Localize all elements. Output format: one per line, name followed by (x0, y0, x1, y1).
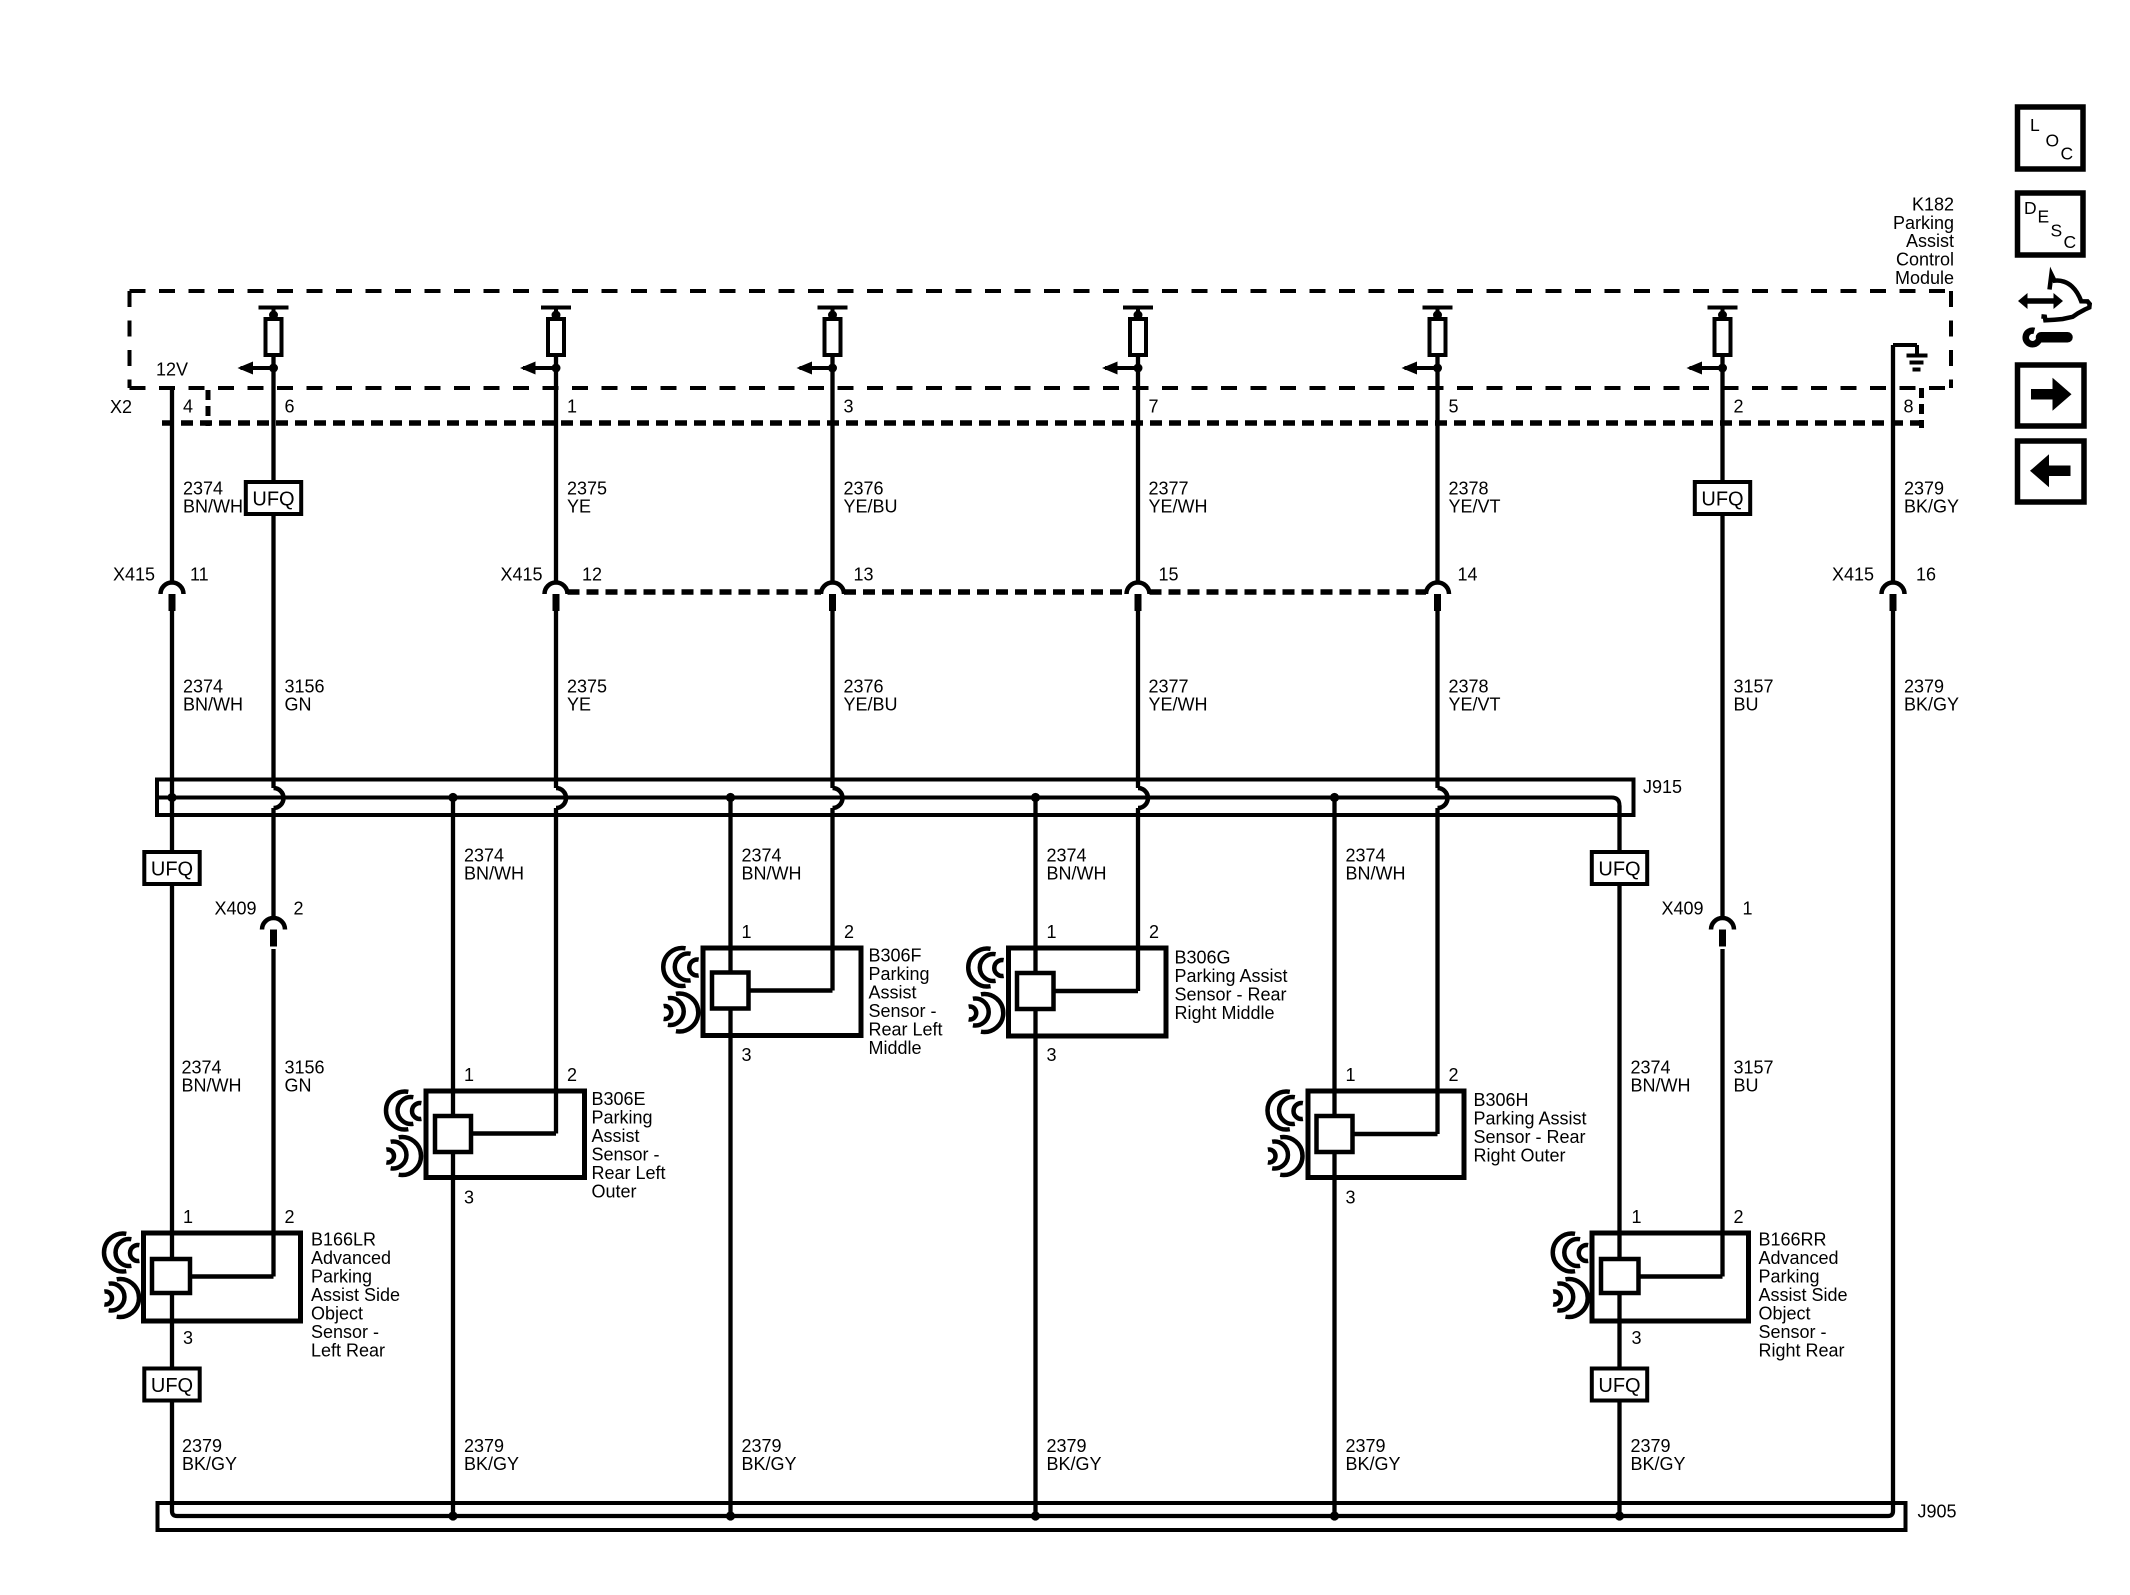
svg-text:S: S (2051, 221, 2063, 241)
svg-text:Right Outer: Right Outer (1474, 1146, 1566, 1166)
svg-text:YE: YE (567, 497, 591, 517)
svg-text:UFQ: UFQ (151, 858, 193, 880)
svg-text:2: 2 (567, 1065, 577, 1085)
svg-text:1: 1 (1743, 899, 1753, 919)
svg-text:14: 14 (1458, 565, 1478, 585)
svg-text:4: 4 (183, 397, 193, 417)
svg-text:B166RR: B166RR (1759, 1230, 1827, 1250)
svg-text:Sensor - Rear: Sensor - Rear (1474, 1127, 1586, 1147)
svg-text:UFQ: UFQ (1701, 488, 1743, 510)
svg-text:3: 3 (464, 1188, 474, 1208)
svg-text:BN/WH: BN/WH (464, 864, 524, 884)
svg-text:3157: 3157 (1734, 1058, 1774, 1078)
svg-text:1: 1 (1047, 922, 1057, 942)
svg-text:2: 2 (1449, 1065, 1459, 1085)
svg-text:B306H: B306H (1474, 1090, 1529, 1110)
svg-text:2379: 2379 (1047, 1436, 1087, 1456)
svg-text:3: 3 (844, 397, 854, 417)
svg-text:BK/GY: BK/GY (464, 1454, 519, 1474)
svg-text:BU: BU (1734, 1076, 1759, 1096)
svg-text:UFQ: UFQ (1598, 1375, 1640, 1397)
svg-text:2: 2 (1734, 397, 1744, 417)
svg-text:2: 2 (844, 922, 854, 942)
svg-text:3: 3 (1346, 1188, 1356, 1208)
svg-text:2376: 2376 (844, 677, 884, 697)
svg-text:8: 8 (1904, 397, 1914, 417)
svg-text:11: 11 (190, 565, 209, 585)
svg-text:BK/GY: BK/GY (1346, 1454, 1401, 1474)
svg-text:Advanced: Advanced (311, 1248, 391, 1268)
svg-text:2: 2 (1149, 922, 1159, 942)
svg-text:YE: YE (567, 695, 591, 715)
svg-text:3156: 3156 (285, 677, 325, 697)
svg-text:Sensor -: Sensor - (592, 1145, 660, 1165)
svg-text:BN/WH: BN/WH (1631, 1076, 1691, 1096)
svg-text:2374: 2374 (183, 479, 223, 499)
svg-text:Advanced: Advanced (1759, 1248, 1839, 1268)
svg-text:1: 1 (1346, 1065, 1356, 1085)
svg-text:Parking Assist: Parking Assist (1175, 966, 1288, 986)
svg-text:Right Rear: Right Rear (1759, 1341, 1845, 1361)
svg-text:12V: 12V (156, 359, 188, 379)
svg-text:2374: 2374 (1346, 846, 1386, 866)
svg-text:Assist: Assist (1906, 231, 1954, 251)
svg-text:B306G: B306G (1175, 948, 1231, 968)
svg-text:Assist Side: Assist Side (1759, 1285, 1848, 1305)
svg-text:2374: 2374 (464, 846, 504, 866)
svg-text:Parking: Parking (1759, 1267, 1820, 1287)
svg-text:BN/WH: BN/WH (1346, 864, 1406, 884)
svg-text:12: 12 (582, 565, 602, 585)
svg-text:J915: J915 (1643, 777, 1682, 797)
svg-text:Parking: Parking (311, 1267, 372, 1287)
svg-text:Outer: Outer (592, 1182, 637, 1202)
svg-text:Parking: Parking (592, 1108, 653, 1128)
svg-text:D: D (2024, 198, 2037, 218)
svg-text:2: 2 (1734, 1207, 1744, 1227)
svg-text:BK/GY: BK/GY (182, 1454, 237, 1474)
svg-text:3156: 3156 (285, 1058, 325, 1078)
svg-text:2377: 2377 (1149, 479, 1189, 499)
svg-text:BN/WH: BN/WH (183, 497, 243, 517)
svg-text:B306E: B306E (592, 1089, 646, 1109)
svg-text:YE/BU: YE/BU (844, 497, 898, 517)
svg-text:2: 2 (285, 1207, 295, 1227)
svg-text:X2: X2 (110, 397, 132, 417)
svg-text:15: 15 (1159, 565, 1179, 585)
svg-text:2: 2 (294, 899, 304, 919)
svg-text:X409: X409 (215, 899, 257, 919)
svg-text:2377: 2377 (1149, 677, 1189, 697)
svg-text:3157: 3157 (1734, 677, 1774, 697)
svg-text:Sensor -: Sensor - (869, 1001, 937, 1021)
svg-text:GN: GN (285, 695, 312, 715)
svg-text:2379: 2379 (464, 1436, 504, 1456)
svg-text:Sensor -: Sensor - (311, 1322, 379, 1342)
svg-text:X409: X409 (1662, 899, 1704, 919)
svg-text:Object: Object (311, 1304, 363, 1324)
svg-text:X415: X415 (1832, 565, 1874, 585)
svg-text:X415: X415 (113, 565, 155, 585)
svg-text:Module: Module (1895, 268, 1954, 288)
svg-text:BK/GY: BK/GY (1904, 695, 1959, 715)
svg-text:Object: Object (1759, 1304, 1811, 1324)
svg-text:BK/GY: BK/GY (742, 1454, 797, 1474)
svg-text:BK/GY: BK/GY (1047, 1454, 1102, 1474)
svg-text:BN/WH: BN/WH (742, 864, 802, 884)
svg-text:2378: 2378 (1449, 677, 1489, 697)
svg-text:Assist: Assist (592, 1126, 640, 1146)
svg-text:3: 3 (742, 1045, 752, 1065)
svg-text:1: 1 (464, 1065, 474, 1085)
svg-text:2379: 2379 (742, 1436, 782, 1456)
svg-text:2374: 2374 (1631, 1058, 1671, 1078)
svg-text:Right Middle: Right Middle (1175, 1003, 1275, 1023)
svg-text:BK/GY: BK/GY (1631, 1454, 1686, 1474)
svg-text:BN/WH: BN/WH (183, 695, 243, 715)
svg-text:B306F: B306F (869, 946, 922, 966)
svg-text:BU: BU (1734, 695, 1759, 715)
svg-text:BN/WH: BN/WH (1047, 864, 1107, 884)
svg-text:UFQ: UFQ (151, 1375, 193, 1397)
svg-text:2379: 2379 (182, 1436, 222, 1456)
svg-text:X415: X415 (501, 565, 543, 585)
svg-text:B166LR: B166LR (311, 1230, 376, 1250)
svg-text:UFQ: UFQ (1598, 858, 1640, 880)
svg-text:2379: 2379 (1346, 1436, 1386, 1456)
svg-text:Sensor - Rear: Sensor - Rear (1175, 985, 1287, 1005)
svg-text:3: 3 (1632, 1328, 1642, 1348)
svg-text:2375: 2375 (567, 479, 607, 499)
svg-text:Sensor -: Sensor - (1759, 1322, 1827, 1342)
svg-text:BN/WH: BN/WH (182, 1076, 242, 1096)
svg-text:Rear Left: Rear Left (592, 1163, 666, 1183)
svg-text:3: 3 (1047, 1045, 1057, 1065)
svg-text:Assist Side: Assist Side (311, 1285, 400, 1305)
svg-text:GN: GN (285, 1076, 312, 1096)
svg-text:YE/WH: YE/WH (1149, 497, 1208, 517)
svg-text:Assist: Assist (869, 983, 917, 1003)
svg-text:Parking Assist: Parking Assist (1474, 1109, 1587, 1129)
svg-text:2379: 2379 (1904, 677, 1944, 697)
svg-text:Rear Left: Rear Left (869, 1020, 943, 1040)
svg-text:K182: K182 (1912, 194, 1954, 214)
svg-text:Parking: Parking (1893, 213, 1954, 233)
svg-text:L: L (2030, 115, 2040, 135)
svg-text:BK/GY: BK/GY (1904, 497, 1959, 517)
svg-text:5: 5 (1449, 397, 1459, 417)
svg-text:1: 1 (1632, 1207, 1642, 1227)
svg-text:2374: 2374 (183, 677, 223, 697)
svg-text:Control: Control (1896, 250, 1954, 270)
svg-text:YE/BU: YE/BU (844, 695, 898, 715)
svg-text:C: C (2061, 144, 2074, 164)
svg-text:3: 3 (183, 1328, 193, 1348)
svg-text:1: 1 (567, 397, 577, 417)
svg-text:2374: 2374 (1047, 846, 1087, 866)
svg-text:Left Rear: Left Rear (311, 1341, 385, 1361)
svg-text:O: O (2046, 131, 2060, 151)
svg-text:YE/WH: YE/WH (1149, 695, 1208, 715)
svg-text:6: 6 (285, 397, 295, 417)
svg-text:7: 7 (1149, 397, 1159, 417)
svg-text:2379: 2379 (1631, 1436, 1671, 1456)
svg-text:YE/VT: YE/VT (1449, 497, 1501, 517)
svg-text:Middle: Middle (869, 1038, 922, 1058)
svg-text:2375: 2375 (567, 677, 607, 697)
svg-text:1: 1 (183, 1207, 193, 1227)
svg-text:Parking: Parking (869, 964, 930, 984)
svg-text:2374: 2374 (182, 1058, 222, 1078)
svg-text:16: 16 (1916, 565, 1936, 585)
svg-text:UFQ: UFQ (252, 488, 294, 510)
svg-text:2379: 2379 (1904, 479, 1944, 499)
svg-text:C: C (2064, 232, 2077, 252)
svg-text:2374: 2374 (742, 846, 782, 866)
svg-text:E: E (2038, 207, 2050, 227)
svg-text:J905: J905 (1918, 1502, 1957, 1522)
svg-text:2378: 2378 (1449, 479, 1489, 499)
svg-text:2376: 2376 (844, 479, 884, 499)
svg-text:13: 13 (854, 565, 874, 585)
svg-text:YE/VT: YE/VT (1449, 695, 1501, 715)
svg-text:1: 1 (742, 922, 752, 942)
